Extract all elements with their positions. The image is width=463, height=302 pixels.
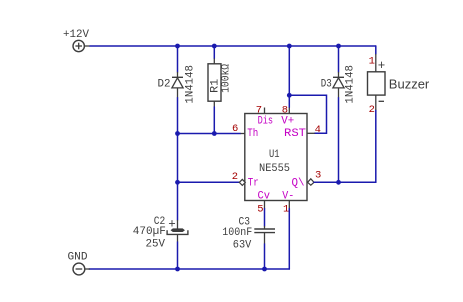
svg-text:5: 5 <box>257 204 263 216</box>
node junction rail-pin8 <box>287 44 292 49</box>
supply terminal +12V <box>73 40 90 51</box>
pin 2 diamond <box>239 179 245 185</box>
wire top rail <box>90 45 376 47</box>
svg-text:R1: R1 <box>210 78 222 92</box>
wire pin5 to C3 <box>264 209 266 227</box>
node junction gnd-C3 <box>262 267 267 272</box>
wire R1 branch upper <box>213 46 215 59</box>
svg-text:+: + <box>168 217 176 231</box>
wire C3 bottom <box>264 244 266 269</box>
capacitor C2 <box>167 220 188 242</box>
svg-text:470µF: 470µF <box>133 226 166 238</box>
wire R1 bottom <box>213 107 215 134</box>
svg-text:V-: V- <box>282 191 294 203</box>
svg-text:63V: 63V <box>233 240 252 252</box>
svg-text:D2: D2 <box>158 79 171 91</box>
node junction Q-D3 <box>336 180 341 185</box>
capacitor C3 <box>254 226 275 244</box>
svg-text:+: + <box>378 59 386 73</box>
node junction gnd-C2 <box>175 267 180 272</box>
diode D2 <box>172 72 183 98</box>
op-amp U1 NE555 box <box>245 114 307 201</box>
wire D2 branch upper <box>177 46 179 72</box>
svg-text:U1: U1 <box>269 149 280 161</box>
ground terminal GND <box>73 263 90 275</box>
svg-text:D3: D3 <box>321 79 332 91</box>
svg-text:4: 4 <box>315 124 321 136</box>
wire D3 branch upper <box>338 46 340 72</box>
wire C2 bottom <box>177 242 179 269</box>
buzzer LS1 <box>368 54 386 110</box>
node junction rail-D2 <box>175 44 180 49</box>
pin 5 stub <box>264 201 266 209</box>
svg-text:RST: RST <box>284 128 306 140</box>
pin 7 stub <box>264 108 266 114</box>
wire ground rail <box>89 268 289 270</box>
pin 3 diamond <box>308 179 314 185</box>
wire Q output row <box>314 181 376 183</box>
wire Tr row <box>178 181 240 183</box>
wire buzzer drop top <box>375 46 377 54</box>
svg-text:6: 6 <box>232 123 238 135</box>
svg-text:25V: 25V <box>146 238 166 250</box>
svg-text:Tr: Tr <box>248 178 259 190</box>
wire pin8 drop <box>288 46 290 108</box>
svg-text:100nF: 100nF <box>222 227 252 239</box>
svg-text:2: 2 <box>232 171 238 183</box>
svg-text:Buzzer: Buzzer <box>389 76 430 91</box>
svg-text:Dis: Dis <box>258 116 274 128</box>
node junction R1-Th <box>212 131 217 136</box>
node junction rail-D3 <box>336 44 341 49</box>
svg-text:1: 1 <box>369 56 375 68</box>
node junction rail-R1 <box>212 44 217 49</box>
buzzer minus mark <box>379 100 384 102</box>
pin 6 stub <box>241 133 245 135</box>
svg-text:100kΩ: 100kΩ <box>221 64 233 93</box>
svg-text:1N4148: 1N4148 <box>185 65 197 104</box>
pin 8 stub <box>288 108 290 114</box>
wire RST loop <box>289 95 326 133</box>
resistor R1 <box>208 59 221 108</box>
node junction Th row left <box>175 131 180 136</box>
wire Th row <box>178 133 241 135</box>
pin 4 stub <box>307 132 315 134</box>
node junction Tr row left <box>175 180 180 185</box>
wire D3 lower <box>338 98 340 183</box>
svg-text:1: 1 <box>283 204 289 216</box>
svg-text:3: 3 <box>315 169 321 181</box>
svg-text:Q\: Q\ <box>292 178 305 190</box>
diode D3 <box>333 72 344 98</box>
svg-text:2: 2 <box>369 104 375 116</box>
svg-text:+12V: +12V <box>63 29 89 41</box>
svg-text:GND: GND <box>68 252 88 264</box>
wire D2 to Tr/C2 column <box>177 98 179 220</box>
node junction pin8-RST <box>287 93 292 98</box>
pin 1 stub <box>288 201 290 209</box>
wire pin1 to ground rail <box>288 209 290 270</box>
svg-text:V+: V+ <box>281 116 294 128</box>
svg-text:Th: Th <box>247 128 258 140</box>
wire buzzer drop bottom <box>375 110 377 182</box>
svg-text:1N4148: 1N4148 <box>344 65 356 104</box>
svg-text:NE555: NE555 <box>259 163 290 175</box>
